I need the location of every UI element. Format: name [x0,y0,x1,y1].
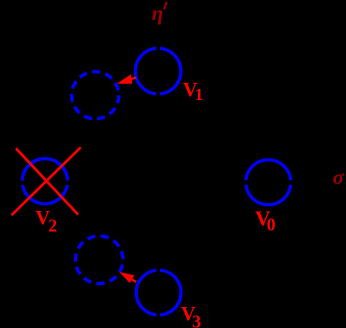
gap line through V2 (horizontal) [18,180,74,184]
circle V2 [22,159,67,204]
svg-text:3: 3 [192,311,201,328]
arrow V1 to D1: tail [131,78,136,79]
svg-text:0: 0 [267,214,276,234]
svg-text:σ: σ [333,165,345,189]
X cross over V2, stroke 1 [16,148,78,214]
svg-text:2: 2 [48,216,57,236]
gap line through V0 (horizontal) [240,180,296,184]
circle V1 [135,48,181,94]
arrow V3 to D2: tail [132,279,136,282]
dashed circle D1 (upper blow-up locus) [72,72,119,119]
svg-text:1: 1 [195,85,204,104]
svg-text:η: η [152,1,164,25]
label eta prime tick [164,2,167,10]
gap line through V1 (vertical) [156,43,160,99]
circle V0 [246,160,291,205]
circle V3 [136,270,181,315]
gap line through V3 (vertical) [156,265,160,320]
arrow V1 to D1: head [117,74,132,84]
X cross over V2, stroke 2 [12,147,81,215]
dashed circle D2 (lower blow-up locus) [75,236,123,284]
arrow V3 to D2: head [119,272,134,283]
